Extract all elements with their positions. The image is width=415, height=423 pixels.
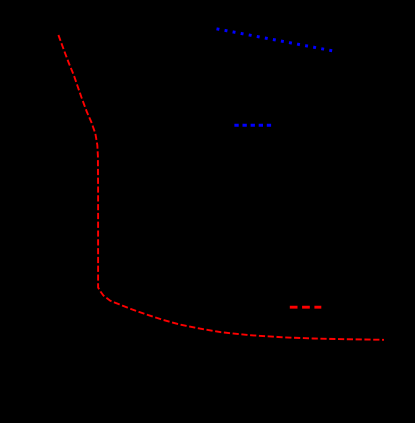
- red dashed curve: [58, 35, 384, 340]
- blue dotted line: [217, 29, 333, 51]
- blue legend dash segment: [234, 124, 271, 127]
- red legend dash segment: [290, 306, 322, 309]
